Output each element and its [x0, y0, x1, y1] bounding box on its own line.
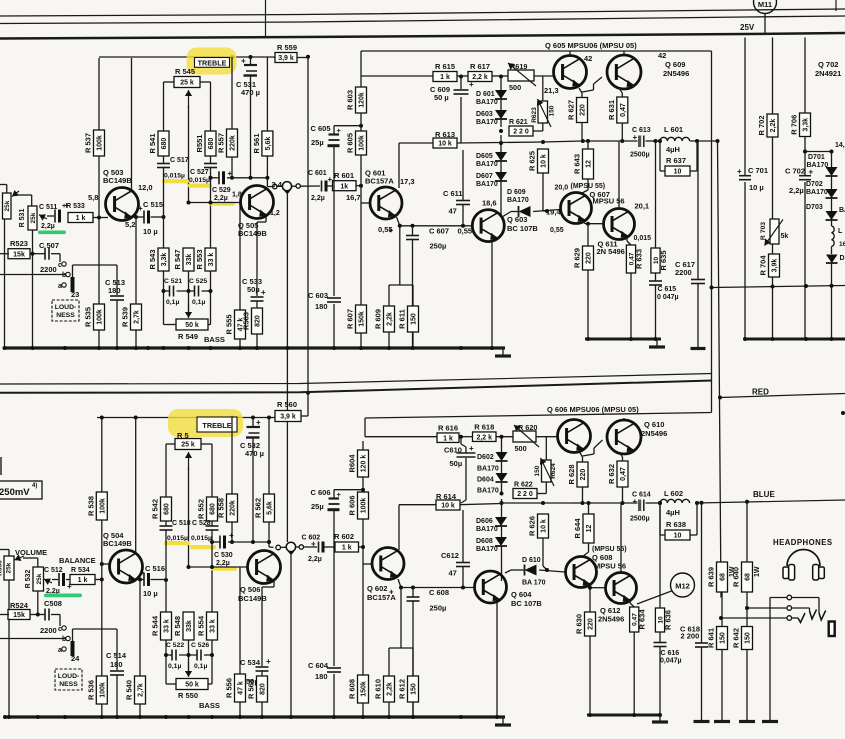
capacitor C515 [138, 204, 150, 224]
junction upper rail [3, 346, 495, 350]
wire volume wiper to R531 [18, 195, 32, 206]
svg-text:VOLUME: VOLUME [15, 548, 47, 557]
wire right rail [745, 338, 845, 341]
svg-text:R 629: R 629 [573, 248, 582, 268]
wire Q601 emitter row [389, 217, 473, 306]
label D610 [522, 557, 546, 587]
label C531 [236, 80, 260, 97]
svg-text:R604: R604 [348, 454, 357, 473]
wire R562 column [269, 418, 274, 548]
wire R542 to C518 [165, 521, 167, 526]
svg-text:2,7k: 2,7k [138, 683, 145, 697]
svg-text:10 µ: 10 µ [749, 183, 764, 192]
svg-text:C 526: C 526 [191, 642, 209, 649]
highlight yellow C528 [190, 545, 216, 549]
wire C530 row [212, 541, 269, 543]
svg-text:D703: D703 [806, 204, 823, 211]
capacitor C615 [649, 281, 662, 285]
capacitor C613 [630, 127, 651, 159]
transistor Q506 [248, 551, 281, 584]
capacitor C701 [737, 167, 751, 180]
label C610 [444, 446, 462, 469]
svg-text:R 607: R 607 [346, 309, 355, 329]
svg-text:1W: 1W [754, 566, 761, 577]
capacitor C512 [59, 573, 72, 591]
label D606 [476, 518, 498, 533]
svg-text:C 530: C 530 [214, 552, 233, 559]
wire C605 branch [334, 126, 361, 348]
svg-text:100k: 100k [99, 498, 106, 514]
svg-text:BA170: BA170 [476, 546, 498, 553]
svg-text:2200: 2200 [40, 626, 57, 635]
svg-text:TREBLE: TREBLE [202, 421, 231, 430]
svg-text:150: 150 [411, 313, 418, 325]
resistor R552 [197, 497, 218, 521]
svg-text:0,55: 0,55 [550, 227, 564, 234]
svg-text:R 616: R 616 [438, 423, 458, 432]
switch contact b upper [62, 272, 70, 279]
svg-text:47: 47 [449, 207, 457, 216]
svg-text:BA170: BA170 [476, 119, 498, 126]
svg-text:R 545: R 545 [175, 67, 195, 76]
diode D605 [495, 152, 507, 161]
ground C618 [694, 720, 710, 723]
potentiometer R624 [534, 437, 557, 494]
svg-text:15k: 15k [13, 251, 25, 258]
svg-text:C 614: C 614 [632, 492, 651, 499]
resistor R554 [197, 612, 218, 640]
resistor R543 [148, 248, 169, 271]
resistor R610 [374, 676, 395, 702]
wire treble wiper column [188, 105, 190, 203]
svg-text:C 521: C 521 [164, 278, 182, 285]
svg-text:BC 107B: BC 107B [507, 224, 538, 233]
svg-text:R524: R524 [10, 601, 29, 610]
wire R534 to column [66, 579, 102, 581]
label C612 [441, 551, 459, 578]
svg-text:R 542: R 542 [151, 499, 160, 519]
svg-text:25µ: 25µ [311, 138, 324, 147]
capacitor C702 [799, 168, 814, 180]
label C508 [40, 599, 62, 635]
wiper arrow R532 [44, 578, 58, 584]
terminal dot right edge [841, 411, 845, 415]
svg-text:C 615: C 615 [658, 286, 677, 293]
switch contact c lower [58, 626, 66, 633]
svg-text:C 525: C 525 [189, 278, 207, 285]
svg-text:180: 180 [110, 660, 123, 669]
wire mid row y141 [399, 141, 718, 143]
junction x308 [306, 391, 310, 395]
svg-text:1 k: 1 k [443, 435, 453, 442]
svg-text:2,2µ: 2,2µ [308, 556, 322, 563]
transistor Q604 label [511, 590, 542, 608]
wire supply column x308 [307, 58, 309, 411]
wire R556 column [239, 567, 241, 717]
switch contact c upper [58, 262, 66, 269]
capacitor C616 [654, 643, 667, 647]
label C702 [785, 167, 805, 196]
junction R601 node [359, 124, 363, 188]
junction R534 node [100, 578, 104, 582]
wire R546 left lead [166, 444, 175, 497]
label C525 [189, 278, 207, 306]
svg-text:14,: 14, [835, 142, 845, 149]
wire R552 to C528 [211, 521, 213, 526]
capacitor C529 [219, 169, 233, 184]
resistor R547 [173, 248, 194, 271]
wire jack ring row [747, 608, 810, 611]
wire R524 to C508 [30, 615, 60, 627]
svg-text:R523: R523 [10, 239, 28, 248]
highlight yellow C529 [209, 202, 235, 206]
resistor R556 [225, 674, 246, 702]
svg-text:R 612: R 612 [398, 679, 407, 699]
wire R706 col [804, 38, 806, 340]
svg-text:BALANCE: BALANCE [59, 556, 96, 565]
wire R626 bottom [543, 538, 547, 570]
svg-text:C 515: C 515 [143, 200, 163, 209]
connector jack ring [787, 606, 792, 611]
resistor R536 [86, 676, 107, 704]
label C604 [308, 661, 329, 681]
capacitor C527 [204, 164, 217, 168]
wire Q505 collector to jack [277, 185, 320, 187]
svg-text:R 557: R 557 [217, 133, 226, 153]
capacitor C526 [197, 650, 201, 661]
svg-text:R 605: R 605 [346, 133, 355, 153]
wire C522 C526 row [166, 654, 212, 656]
wire C529 row [211, 177, 268, 179]
wire column x99 [98, 58, 100, 348]
svg-text:C 608: C 608 [429, 588, 449, 597]
svg-text:BLUE: BLUE [753, 490, 775, 499]
junction Q612 base node [588, 586, 592, 590]
svg-text:25 k: 25 k [180, 80, 194, 87]
wire R545 right lead [200, 82, 211, 131]
resistor R617 [468, 62, 492, 82]
wire upper amp rail [585, 338, 661, 341]
svg-text:C 517: C 517 [170, 157, 189, 164]
svg-text:2,2µ: 2,2µ [789, 186, 804, 195]
capacitor C533 [251, 288, 267, 301]
svg-text:0,015µ: 0,015µ [164, 173, 185, 180]
transistor Q610 [607, 420, 641, 454]
label C528 [191, 520, 212, 542]
capacitor C607 [389, 226, 420, 240]
svg-text:50 k: 50 k [185, 682, 199, 689]
svg-text:R 702: R 702 [757, 115, 766, 135]
resistor R559 [275, 53, 297, 63]
resistor R629 [573, 246, 594, 270]
resistor R642 [732, 627, 753, 650]
transistor Q610 label [641, 420, 667, 438]
svg-text:R 602: R 602 [334, 532, 354, 541]
svg-text:R 539: R 539 [121, 307, 130, 327]
svg-text:10: 10 [674, 169, 682, 176]
svg-text:Q 602: Q 602 [367, 584, 387, 593]
transistor Q608 label [592, 546, 627, 571]
label C532 [240, 441, 264, 458]
svg-text:BA170: BA170 [476, 161, 498, 168]
ground R642 [739, 720, 755, 723]
svg-text:+: + [633, 133, 638, 142]
wire C608 lead [412, 588, 414, 598]
wire Q605 to Q609 base [582, 77, 602, 92]
label D607 [476, 173, 498, 188]
wiper arrow R545 [185, 90, 192, 108]
svg-text:5,6k: 5,6k [265, 137, 272, 151]
svg-text:D603: D603 [476, 111, 493, 118]
junction supply row upper [230, 55, 310, 59]
svg-text:12: 12 [586, 160, 593, 168]
diode D609 [519, 206, 531, 217]
potentiometer R530 volume lower [0, 550, 24, 718]
potentiometer R620 [513, 423, 539, 453]
wire C612 column [462, 510, 464, 588]
wire lower ground rail [5, 715, 505, 718]
potentiometer R532 25k [25, 567, 44, 615]
transistor Q506 label [238, 585, 267, 603]
svg-text:R 609: R 609 [374, 309, 383, 329]
wire Q606 to Q610 base [583, 440, 603, 456]
svg-text:D606: D606 [476, 518, 493, 525]
svg-text:R 706: R 706 [790, 115, 799, 135]
wire R610 col [388, 702, 390, 717]
diode D7xx [826, 255, 845, 264]
svg-text:R 617: R 617 [470, 62, 490, 71]
label C611 [443, 189, 463, 216]
svg-text:C508: C508 [44, 599, 62, 608]
wire R545 left lead [164, 82, 175, 131]
svg-text:D605: D605 [476, 153, 493, 160]
svg-text:10 k: 10 k [441, 503, 455, 510]
svg-text:2,2k: 2,2k [770, 119, 777, 133]
wire Q605 collector [569, 51, 571, 56]
svg-text:C 701: C 701 [748, 166, 768, 175]
svg-text:23: 23 [71, 290, 79, 299]
svg-text:10 k: 10 k [541, 519, 548, 533]
resistor R613 [433, 138, 457, 148]
label D702 [806, 181, 828, 196]
potentiometer R530 volume upper [0, 185, 19, 349]
svg-text:R 558: R 558 [217, 498, 226, 518]
resistor R633 [626, 245, 643, 273]
svg-text:33k: 33k [186, 620, 193, 632]
capacitor C611 [456, 201, 470, 205]
resistor R644 [573, 514, 594, 543]
svg-text:MPSU 56: MPSU 56 [593, 197, 625, 206]
wire R560 leads [301, 411, 308, 417]
svg-text:R 610: R 610 [374, 679, 383, 699]
svg-text:Q 603: Q 603 [507, 215, 527, 224]
svg-text:TREBLE: TREBLE [198, 58, 227, 67]
junction R557 bottom [230, 176, 234, 180]
wire C601 to R601 [328, 185, 333, 187]
resistor R533 [68, 213, 93, 223]
wire R561 column [267, 57, 272, 187]
treble label box upper [195, 58, 230, 68]
svg-text:50 µ: 50 µ [434, 93, 449, 102]
highlight yellow C517 [162, 179, 189, 183]
svg-text:0,047µ: 0,047µ [660, 658, 682, 665]
diode D703 [826, 211, 838, 220]
potentiometer R546 treble [175, 439, 201, 450]
svg-text:15k: 15k [13, 612, 25, 619]
wire Q503 emitter row [133, 216, 164, 218]
svg-text:LOUD-: LOUD- [58, 673, 80, 680]
svg-text:2N 5496: 2N 5496 [597, 247, 625, 256]
label C605 [311, 124, 331, 147]
label C521 [164, 278, 182, 306]
resistor R564 [247, 676, 268, 702]
svg-text:Q 506: Q 506 [240, 585, 260, 594]
svg-text:820: 820 [255, 315, 262, 327]
resistor R630 [575, 612, 596, 636]
transistor Q607 label [571, 183, 625, 206]
wire R608 col [362, 564, 364, 717]
svg-text:C 507: C 507 [39, 241, 59, 250]
svg-text:2,2µ: 2,2µ [214, 195, 228, 202]
svg-text:180: 180 [315, 672, 328, 681]
wire R644 col [582, 503, 589, 557]
wire R541 column lower [164, 168, 177, 325]
potentiometer R623 [531, 77, 556, 132]
svg-text:R 621: R 621 [509, 119, 528, 126]
junction cap row [162, 289, 213, 293]
junction R562 C530 [251, 540, 271, 544]
svg-text:R 550: R 550 [178, 691, 198, 700]
connector jack lower [286, 542, 295, 555]
svg-text:R530: R530 [0, 560, 4, 576]
svg-text:+: + [311, 540, 316, 549]
wire R631 col [619, 88, 622, 141]
svg-text:2,2µ: 2,2µ [311, 195, 325, 202]
wire diode chain upper part [500, 77, 502, 217]
resistor R602 [335, 542, 359, 552]
svg-text:68: 68 [745, 573, 752, 581]
wire R523 to C507 [30, 254, 60, 262]
connector jack sleeve [787, 616, 792, 621]
svg-text:R 601: R 601 [334, 171, 354, 180]
svg-text:250µ: 250µ [430, 242, 447, 251]
svg-text:Q 605 MPSU06 (MPSU 05): Q 605 MPSU06 (MPSU 05) [545, 41, 637, 50]
svg-text:50µ: 50µ [247, 285, 260, 294]
svg-text:470 µ: 470 µ [241, 88, 260, 97]
resistor R551 [195, 131, 216, 156]
wire RED line [720, 394, 845, 398]
svg-text:470 µ: 470 µ [245, 449, 264, 458]
wire Q506 emitter to C534 [262, 581, 274, 717]
connector jack upper [282, 182, 291, 195]
svg-text:(MPSU 55): (MPSU 55) [571, 183, 606, 190]
svg-text:BC 107B: BC 107B [511, 599, 542, 608]
wire C521 C525 row [164, 290, 211, 292]
wire Q602 collector drop [398, 505, 400, 550]
inductor L701 [832, 226, 845, 248]
label D601 [476, 91, 498, 106]
svg-text:4µH: 4µH [666, 508, 680, 517]
label C616 [660, 650, 682, 665]
svg-text:b: b [62, 636, 66, 643]
resistor R640 [732, 562, 753, 592]
resistor R607 [346, 305, 367, 333]
label C530 [214, 552, 233, 567]
svg-text:C 611: C 611 [443, 189, 463, 198]
annotation 250mV box [0, 481, 42, 499]
wire 25V supply rail [0, 33, 845, 39]
svg-text:220k: 220k [230, 135, 237, 151]
capacitor C521 [170, 286, 174, 297]
junction base node lower [100, 562, 104, 566]
highlight green C512 [44, 594, 82, 598]
capacitor C507 [45, 248, 49, 260]
capacitor C617 [691, 280, 705, 284]
wire sleeve return [769, 598, 771, 721]
connector pin lower [276, 545, 281, 550]
headphones icon [783, 550, 824, 581]
label C515 [143, 200, 163, 236]
svg-text:5,6k: 5,6k [267, 501, 274, 515]
svg-text:33 k: 33 k [210, 619, 217, 633]
svg-text:150: 150 [745, 632, 752, 644]
junction diode link [803, 150, 834, 154]
svg-text:BA170: BA170 [507, 197, 529, 204]
resistor R548 [173, 612, 194, 640]
svg-text:+: + [328, 175, 333, 184]
svg-text:R 537: R 537 [84, 133, 93, 153]
svg-text:R 555: R 555 [225, 314, 234, 334]
svg-text:25k: 25k [30, 212, 37, 223]
svg-text:a: a [58, 647, 62, 654]
highlight yellow C530 [211, 567, 237, 571]
svg-text:C 613: C 613 [632, 127, 651, 134]
svg-text:C 534: C 534 [240, 658, 261, 667]
svg-text:C 518: C 518 [172, 520, 191, 527]
svg-text:220: 220 [586, 252, 593, 264]
svg-text:R 630: R 630 [575, 614, 584, 634]
capacitor C612 [456, 563, 470, 567]
svg-text:47 k: 47 k [238, 681, 245, 695]
svg-text:C610: C610 [444, 446, 462, 455]
svg-text:R 556: R 556 [225, 678, 234, 698]
resistor R535 [84, 304, 105, 330]
svg-text:C 529: C 529 [212, 187, 231, 194]
svg-text:R 637: R 637 [666, 156, 686, 165]
svg-text:120k: 120k [359, 92, 366, 108]
junction L602 [658, 501, 699, 505]
junction wiper node lower [187, 565, 215, 569]
svg-text:18,6: 18,6 [482, 199, 497, 208]
junction right col [771, 284, 834, 289]
svg-text:R 643: R 643 [573, 154, 582, 174]
svg-text:R 635: R 635 [659, 250, 668, 270]
junction lower rail [3, 715, 499, 719]
transistor Q608 [566, 557, 597, 588]
junction R561 C529 [249, 176, 270, 180]
svg-text:100k: 100k [361, 498, 368, 514]
resistor R643 [573, 149, 594, 179]
resistor R537 [84, 130, 105, 156]
svg-text:25k: 25k [6, 562, 13, 573]
svg-text:16: 16 [839, 241, 845, 248]
wire supply row y417 lower [97, 417, 275, 419]
svg-text:b: b [62, 272, 66, 279]
resistor R614 [436, 500, 460, 510]
resistor R534 [70, 575, 95, 585]
svg-text:R 553: R 553 [195, 249, 204, 269]
svg-text:R624: R624 [550, 463, 557, 479]
